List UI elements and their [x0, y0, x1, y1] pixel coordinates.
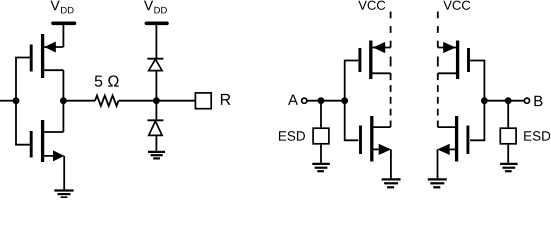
transistor Q4 NMOS A — [361, 116, 392, 162]
ground G2 — [148, 152, 165, 159]
wire ESD A to ground — [320, 144, 322, 163]
wire Q1 drain to output node — [62, 70, 64, 101]
label VCC B — [443, 1, 470, 10]
wire D1 to VDD2 — [155, 23, 157, 58]
transistor Q5 PMOS B — [438, 41, 469, 80]
resistor R1 5 ohm — [95, 96, 119, 106]
power rail VCC A dashed — [390, 12, 392, 128]
junction input node — [13, 97, 20, 104]
power rail VCC B dashed — [437, 12, 439, 128]
wire A to gate bus — [307, 100, 345, 102]
ground G4 — [382, 179, 401, 187]
transistor Q3 PMOS A — [360, 41, 391, 80]
wire input gate bus — [16, 58, 30, 145]
transistor Q6 NMOS B — [437, 116, 468, 162]
junction A gate node — [341, 97, 348, 104]
wire B to gate bus — [484, 100, 524, 102]
ground G1 — [54, 191, 73, 198]
power VDD1 bar — [53, 21, 75, 25]
wire resistor to pad node — [119, 100, 196, 102]
wire Q6 source to ground — [437, 149, 439, 178]
wire D2 to ground — [155, 135, 157, 150]
wire Q4 source to ground — [390, 149, 392, 178]
label A — [288, 95, 298, 105]
pad R square — [195, 93, 211, 109]
wire VDD1 to Q1 source — [62, 23, 64, 47]
wire B ESD branch — [507, 101, 509, 129]
terminal A circle — [302, 98, 307, 103]
ground G3 — [312, 164, 330, 171]
ground G5 — [500, 164, 517, 171]
wire gate bus B — [470, 61, 484, 141]
ground G6 — [428, 179, 447, 187]
junction pad node — [153, 97, 160, 104]
label ESD B — [524, 131, 550, 141]
label 5 ohm — [95, 75, 119, 86]
wire node to diode D1 — [155, 71, 157, 101]
power VDD1 label — [50, 1, 73, 14]
wire Q2 source to ground — [63, 156, 65, 190]
wire ESD B to ground — [507, 144, 509, 163]
junction B gate node — [481, 97, 488, 104]
ESD block B — [500, 128, 516, 144]
label B — [534, 96, 542, 106]
ESD block A — [313, 128, 329, 144]
wire gate bus A — [345, 61, 359, 141]
wire input — [0, 100, 16, 102]
transistor Q1 PMOS — [31, 34, 63, 78]
junction B ESD node — [505, 97, 512, 104]
label R — [221, 94, 231, 105]
power VDD2 label — [144, 1, 167, 14]
power VDD2 bar — [146, 21, 167, 25]
wire output to resistor — [63, 100, 95, 102]
transistor Q2 NMOS — [31, 120, 64, 162]
label VCC A — [358, 1, 385, 10]
terminal B circle — [524, 98, 529, 103]
wire node to diode D2 — [155, 101, 157, 121]
diode D2 — [147, 120, 163, 135]
junction output node — [60, 97, 67, 104]
wire Q2 drain to output node — [62, 101, 64, 132]
diode D1 — [147, 59, 163, 71]
wire A ESD branch — [320, 101, 322, 129]
label ESD A — [279, 131, 305, 141]
junction A ESD node — [318, 97, 325, 104]
